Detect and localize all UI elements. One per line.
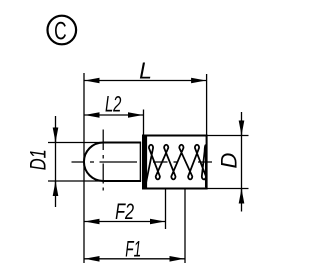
svg-text:L2: L2 bbox=[105, 92, 122, 117]
right extension line for L2 bbox=[143, 110, 145, 137]
flange collar bbox=[142, 135, 147, 190]
D1 extension line top bbox=[48, 142, 103, 144]
pin end edge bbox=[139, 143, 141, 182]
dimension F2 bbox=[85, 199, 166, 224]
spring coil bbox=[146, 145, 206, 188]
main horizontal centerline bbox=[72, 161, 213, 163]
svg-text:D: D bbox=[217, 152, 242, 168]
svg-text:F2: F2 bbox=[115, 199, 134, 224]
left shared extension line bbox=[83, 73, 85, 263]
svg-text:F1: F1 bbox=[125, 236, 141, 261]
dimension D bbox=[217, 112, 242, 212]
view label circle C bbox=[48, 16, 77, 46]
dimension F1 bbox=[85, 236, 185, 261]
D extension line top bbox=[207, 135, 249, 137]
right extension line for F2 bbox=[165, 189, 167, 230]
dimension D1 bbox=[26, 116, 56, 207]
plunger pin body bbox=[103, 143, 141, 182]
svg-text:L: L bbox=[139, 58, 152, 84]
dome vertical centerline bbox=[102, 130, 104, 195]
dimension L2 bbox=[85, 92, 144, 117]
svg-text:D1: D1 bbox=[26, 149, 51, 170]
D extension line bottom bbox=[207, 188, 249, 190]
plunger dome tip bbox=[84, 143, 103, 182]
D1 extension line bottom bbox=[48, 180, 103, 182]
right extension line for L bbox=[206, 74, 208, 136]
housing body bbox=[143, 136, 207, 189]
svg-text:C: C bbox=[54, 18, 67, 46]
right extension line for F1 bbox=[184, 189, 186, 264]
dimension L bbox=[85, 58, 207, 84]
